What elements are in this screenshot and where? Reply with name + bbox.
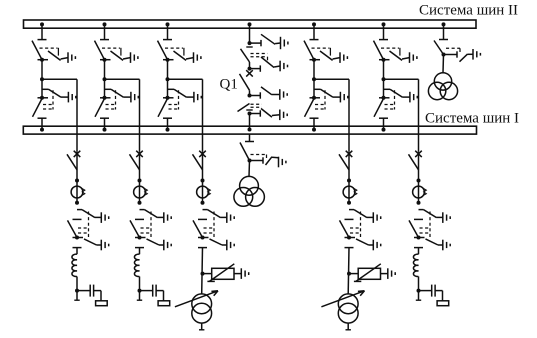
node: coupler above breaker [248, 65, 261, 71]
ground (lower earthing switch, feeder 1) [101, 240, 108, 251]
lower earthing switch of QS1c [84, 239, 101, 245]
ground (lower earthing switch, feeder 2) [164, 240, 171, 251]
wire: feeder 1 below reactor [76, 277, 78, 301]
node: bay 3 tap on bus I [166, 128, 170, 132]
line terminal (feeder 2) [137, 299, 142, 301]
node: bay 4 tap on bus II [312, 22, 316, 39]
wire: transformer tail (feeder 3) [199, 323, 204, 330]
wire: feeder 3 to transformer [201, 248, 204, 294]
wire: VT bay II to earthing switch [444, 54, 458, 56]
line terminal (feeder 5) [416, 299, 421, 301]
earthing switch of QS3a [174, 51, 194, 60]
ground (earthing switch of QS5b) [410, 92, 417, 103]
node: feeder 5 coupling tap [417, 289, 421, 293]
interlock linkage (dashed) QS4c [350, 212, 361, 239]
interlock linkage (dashed, coupler upper) [251, 54, 268, 61]
node: feeder 2 coupling tap [138, 289, 142, 293]
svg-text:Система шин I: Система шин I [425, 111, 519, 127]
node: VT bay tap on bus II [442, 22, 446, 39]
ground (earthing switch of QS1b) [68, 92, 75, 103]
disconnector QS5b (bus I side) [374, 96, 390, 118]
reactor LR (feeder 5) [413, 254, 418, 276]
current transformer TA (feeder 5) [413, 179, 427, 205]
wire: feeder 2 below reactor [139, 277, 141, 301]
upper earthing switch of QS5c [419, 210, 443, 218]
node: bay 1 tap on bus I [40, 128, 44, 132]
wire: bay 1 stub to bus I [41, 118, 43, 129]
disconnector QS4b (bus I side) [305, 96, 321, 118]
reactor LR (feeder 2) [134, 254, 139, 276]
node: bay 5 tap on bus II [382, 22, 386, 39]
wire: bay 3 stub to bus I [167, 118, 169, 129]
surge arrester RU (feeder 3) [207, 264, 234, 282]
node: bay 5 tap on bus I [382, 128, 386, 132]
interlock linkage (dashed) QS5a [381, 48, 400, 56]
ground (coupler ES 1) [281, 37, 288, 49]
disconnector QS1b (bus I side) [33, 96, 49, 118]
line disconnector QS3c (feeder 3) [193, 219, 209, 247]
interlock linkage (dashed) QS1a [40, 48, 59, 56]
earth electrode box (feeder 2) [158, 301, 170, 306]
voltage transformer TV2 (three-winding) [428, 73, 457, 100]
label: Система шин II [419, 3, 518, 19]
node: coupler upper terminal [248, 40, 262, 46]
line disconnector QS1c (feeder 1) [68, 219, 84, 247]
line disconnector QS4c (feeder 4) [340, 219, 356, 247]
disconnector QSc2 (coupler, bus I side) [238, 104, 253, 112]
ground (arrester, feeder 3) [241, 268, 248, 279]
wire: bay 1 branch to feeder [42, 79, 77, 151]
ground (upper earthing switch, feeder 3) [227, 212, 234, 223]
circuit breaker Q (feeder 5) [409, 151, 422, 181]
wire: feeder 5 below reactor [418, 277, 420, 301]
wire: bay 4 between disconnectors [313, 60, 315, 98]
line disconnector QS5c (feeder 5) [409, 219, 425, 247]
wire: bay 2 branch to feeder [105, 79, 140, 151]
interlock linkage (dashed) QS4b [315, 90, 325, 109]
node: bay 1 tap on bus II [40, 22, 44, 39]
wire: transformer tail (feeder 4) [346, 323, 351, 330]
ground (earthing switch of QS2a) [131, 52, 138, 63]
disconnector QS5a (bus II side) [374, 40, 390, 62]
disconnector QSv1 (bus I VT) [240, 142, 254, 163]
node: bay 1 feeder branch [40, 77, 44, 81]
disconnector QS3a (bus II side) [158, 40, 174, 62]
earthing switch (coupler ES 4) [261, 109, 280, 118]
interlock linkage (dashed) QS5b [385, 90, 395, 109]
circuit breaker Q (feeder 3) [193, 151, 206, 181]
earthing switch of QS3b [168, 89, 194, 97]
ground (earthing switch of QS1a) [68, 52, 75, 63]
node: coupler tap on bus I [248, 128, 252, 132]
wire: feeder 2 to reactor [139, 248, 141, 255]
ground (upper earthing switch, feeder 4) [373, 212, 380, 223]
lower earthing switch of QS5c [426, 239, 443, 245]
ground (lower earthing switch, feeder 3) [227, 240, 234, 251]
interlock linkage (dashed) QS4a [312, 48, 331, 56]
earthing switch of QS5b [384, 89, 410, 97]
wire: bay 5 stub to bus I [383, 118, 385, 129]
line disconnector QS2c (feeder 2) [130, 219, 146, 247]
wire: feeder 1 to reactor [76, 248, 78, 255]
ground (earthing switch of QS3b) [194, 92, 201, 103]
wire: bay 2 stub to bus I [104, 118, 106, 129]
disconnector QSv2 (bus II VT) [434, 40, 448, 57]
wire: coupler stub to bus I [249, 114, 251, 130]
earthing switch of QS1b [42, 89, 68, 97]
disconnector QS4a (bus II side) [304, 40, 320, 62]
earthing switch of QS5a [390, 51, 410, 60]
interlock linkage (dashed, bus II VT bay) [446, 48, 460, 52]
earthing switch of QS4a [320, 51, 340, 60]
label Q1 [220, 77, 238, 93]
wire: bay 5 branch to feeder [384, 79, 419, 151]
disconnector QS2a (bus II side) [95, 40, 111, 62]
interlock linkage (dashed) QS3b [169, 90, 179, 109]
transformer T3 with OLTC [175, 291, 218, 323]
wire: bay 1 between disconnectors [41, 60, 43, 98]
ground (earthing switch of QS5a) [410, 52, 417, 63]
node: bay 4 tap on bus I [312, 128, 316, 132]
wire: to voltage transformer TV2 [442, 55, 445, 73]
line terminal (feeder 1) [74, 299, 79, 301]
node: coupler below breaker [248, 92, 261, 98]
disconnector QS2b (bus I side) [95, 96, 111, 118]
ground (bus II VT bay) [473, 49, 480, 60]
node: feeder 1 coupling tap [75, 289, 79, 293]
disconnector QS3b (bus I side) [158, 96, 174, 118]
ground (earthing switch of QS3a) [194, 52, 201, 63]
interlock linkage (dashed) QS3c [204, 212, 215, 239]
wire: bay 3 between disconnectors [167, 60, 169, 98]
ground (coupler ES 4) [280, 110, 287, 121]
interlock linkage (dashed) QS3a [165, 48, 184, 56]
interlock linkage (dashed) QS2c [141, 212, 152, 239]
circuit breaker Q (feeder 1) [67, 151, 80, 181]
node: coupler lower terminal [248, 110, 261, 116]
disconnector QS1a (bus II side) [32, 40, 48, 62]
ground (upper earthing switch, feeder 1) [101, 212, 108, 223]
circuit breaker Q (feeder 2) [130, 151, 143, 181]
ground (earthing switch of QS4a) [340, 52, 347, 63]
node: feeder 4 arrester tap [347, 272, 351, 276]
lower earthing switch of QS3c [210, 239, 227, 245]
wire: VT bay I stub [249, 134, 251, 142]
interlock linkage (dashed) QS1b [43, 90, 53, 109]
interlock linkage (dashed, coupler lower) [251, 104, 262, 107]
ground (upper earthing switch, feeder 5) [443, 212, 450, 223]
ground (lower earthing switch, feeder 5) [443, 240, 450, 251]
disconnector QSc1 (coupler, bus II side) [241, 47, 253, 69]
current transformer TA (feeder 4) [343, 179, 357, 205]
node: bay 3 tap on bus II [166, 22, 170, 39]
interlock linkage (dashed) QS2a [102, 48, 121, 56]
earthing switch (bus II VT bay) [457, 51, 473, 61]
circuit breaker Q (feeder 4) [339, 151, 352, 181]
earthing switch of QS4b [314, 89, 340, 97]
interlock linkage (dashed) QS2b [106, 90, 116, 109]
wire: arrester branch (feeder 3) [203, 273, 212, 275]
earthing switch of QS2a [111, 51, 131, 60]
reactor LR (feeder 1) [72, 254, 77, 276]
coupling capacitor branch (feeder 2) [140, 285, 164, 301]
earthing switch of QS2b [105, 89, 131, 97]
earthing switch (coupler ES 2) [261, 57, 280, 68]
node: bay 2 tap on bus II [103, 22, 107, 39]
bus system I (lower busbar band) [23, 126, 476, 134]
wire: bay 4 stub to bus I [313, 118, 315, 129]
node: feeder 3 arrester tap [201, 272, 205, 276]
label: Система шин I [425, 111, 519, 127]
upper earthing switch of QS1c [77, 210, 101, 218]
ground (earthing switch of QS4b) [340, 92, 347, 103]
wire: bay 4 branch to feeder [314, 79, 349, 151]
ground (coupler ES 2) [280, 61, 287, 72]
earth electrode box (feeder 5) [437, 301, 449, 306]
node: bay 2 tap on bus I [103, 128, 107, 132]
earth electrode box (feeder 1) [96, 301, 108, 306]
wire: arrester to ground (feeder 3) [234, 273, 241, 275]
wire: feeder 5 to reactor [418, 248, 420, 255]
interlock linkage (dashed) QS5c [420, 212, 431, 239]
svg-text:Система шин II: Система шин II [419, 3, 518, 19]
upper earthing switch of QS4c [349, 210, 373, 218]
surge arrester RU (feeder 4) [354, 264, 381, 282]
wire: bay 5 between disconnectors [383, 60, 385, 98]
ground (earthing switch of QS2b) [131, 92, 138, 103]
svg-text:Q1: Q1 [220, 77, 238, 93]
earthing switch of QS1a [48, 51, 68, 60]
voltage transformer TV1 (three-winding) [234, 176, 264, 206]
current transformer TA (feeder 3) [197, 179, 211, 205]
earthing switch (bus I VT bay) [263, 157, 279, 165]
ground (upper earthing switch, feeder 2) [164, 212, 171, 223]
coupling capacitor branch (feeder 5) [419, 285, 443, 301]
wire: feeder 4 to transformer [347, 248, 350, 294]
bus system II (upper busbar band) [24, 20, 477, 28]
earthing switch (coupler ES 3) [261, 87, 280, 95]
lower earthing switch of QS4c [356, 239, 373, 245]
wire: bay 2 between disconnectors [104, 60, 106, 98]
ground (lower earthing switch, feeder 4) [373, 240, 380, 251]
upper earthing switch of QS3c [203, 210, 227, 218]
current transformer TA (feeder 1) [71, 179, 85, 205]
interlock linkage (dashed, bus I VT bay) [251, 155, 267, 159]
node: coupler tap on bus II [248, 22, 252, 43]
circuit breaker Q1 (bus coupler) [240, 70, 253, 95]
node: bay 3 feeder branch [166, 77, 170, 81]
current transformer TA (feeder 2) [134, 179, 148, 205]
wire: VT bay I to earthing switch [250, 160, 264, 162]
wire: to voltage transformer TV1 [248, 161, 251, 177]
upper earthing switch of QS2c [140, 210, 164, 218]
transformer T4 with OLTC [321, 291, 364, 323]
coupling capacitor branch (feeder 1) [77, 285, 101, 301]
earthing switch (coupler, bus II terminal) [261, 34, 281, 44]
wire: arrester to ground (feeder 4) [381, 273, 388, 275]
node: bay 2 feeder branch [103, 77, 107, 81]
ground (bus I VT bay) [279, 157, 286, 168]
wire: arrester branch (feeder 4) [349, 273, 358, 275]
node: bay 4 feeder branch [312, 77, 316, 81]
ground (arrester, feeder 4) [388, 268, 395, 279]
ground (coupler ES 3) [280, 89, 287, 100]
lower earthing switch of QS2c [147, 239, 164, 245]
node: bay 5 feeder branch [382, 77, 386, 81]
wire: bay 3 branch to feeder [168, 79, 203, 151]
interlock linkage (dashed) QS1c [78, 212, 89, 239]
